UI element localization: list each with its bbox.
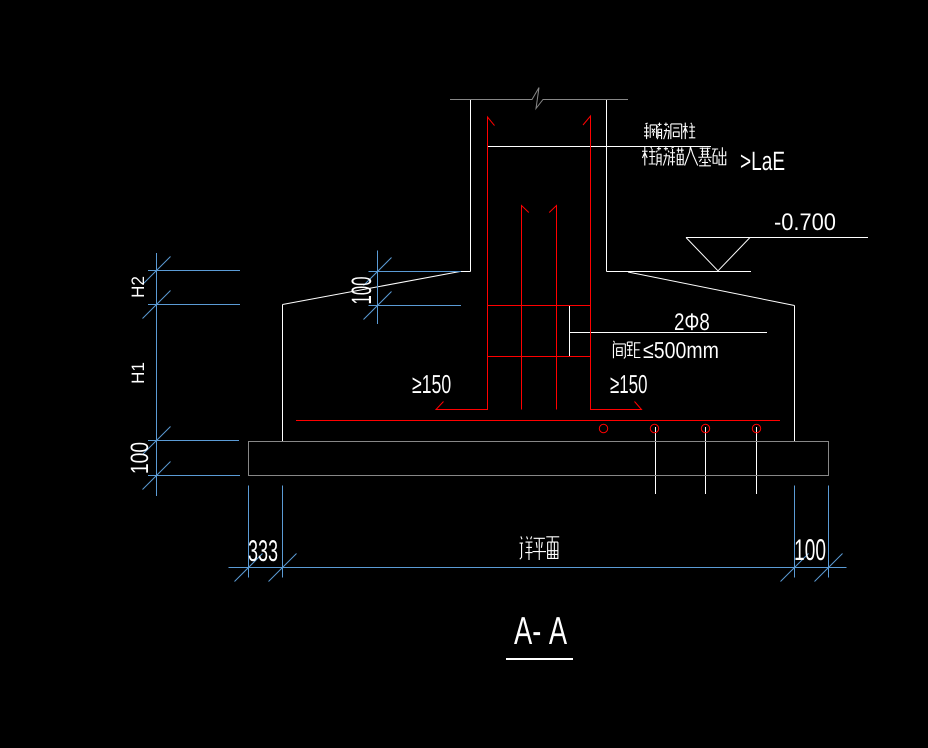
extension line top of footing — [148, 270, 240, 272]
extension line pad bottom — [148, 475, 240, 477]
text H1 rotated — [132, 363, 144, 383]
tick — [235, 554, 263, 582]
label jianju<=500mm — [613, 341, 640, 359]
distribution bar 1 — [488, 305, 591, 307]
tick — [143, 427, 171, 455]
extension line — [369, 305, 462, 307]
label xiang ping mian — [520, 536, 560, 560]
extension line slope base — [148, 304, 240, 306]
footing top-right / level datum line — [607, 271, 752, 273]
circle leader 1 — [655, 427, 657, 494]
column left edge — [470, 100, 472, 272]
text >LaE — [741, 152, 784, 170]
text >=150 right — [611, 375, 647, 393]
extension line footing bottom — [148, 440, 239, 442]
tick — [781, 554, 809, 582]
text >=150 left — [413, 375, 451, 393]
circle leader 2 — [705, 427, 707, 494]
text 333 — [249, 540, 278, 561]
text 100 slope rotated — [351, 277, 371, 303]
footing left slope — [283, 272, 461, 305]
footing right edge — [794, 306, 796, 442]
text 2phi8 — [675, 313, 709, 330]
level symbol triangle — [686, 238, 750, 271]
bedding pad (gray rectangle) — [249, 442, 829, 476]
footing left edge — [282, 305, 284, 442]
bar section circle 4 — [752, 424, 760, 432]
extension line pad right — [828, 486, 830, 578]
rebar inner right — [549, 206, 556, 410]
text -0.700 — [775, 213, 835, 230]
text H2 rotated — [131, 277, 144, 297]
2phi8 leader horizontal — [570, 332, 768, 334]
extension line footing right — [794, 486, 796, 578]
leader line to rebar note — [487, 146, 711, 148]
title A-A — [514, 617, 567, 644]
extension line pad left — [248, 486, 250, 578]
bottom dimension line — [229, 567, 847, 569]
tick — [143, 462, 171, 490]
circle leader 3 — [756, 427, 758, 494]
slope 100 dim line — [377, 251, 379, 325]
extension line footing left — [282, 486, 284, 578]
2phi8 leader vertical — [569, 306, 571, 357]
distribution bar 2 — [488, 356, 591, 358]
bar section circle 2 — [650, 424, 658, 432]
footing right slope — [628, 272, 795, 306]
note line1: gang jin tong zhu — [644, 123, 695, 140]
text 100 left rotated — [131, 443, 149, 473]
level symbol line — [686, 237, 868, 239]
title underline — [506, 658, 573, 660]
tick — [364, 258, 392, 286]
tick — [143, 257, 171, 285]
rebar outer right — [583, 116, 642, 410]
tick — [269, 554, 297, 582]
bottom mat bar — [296, 420, 780, 422]
rebar outer left — [436, 117, 495, 410]
rebar inner left — [522, 206, 529, 410]
extension line — [369, 271, 462, 273]
break line (gray) at top of column — [450, 88, 628, 109]
tick — [815, 554, 843, 582]
tick — [143, 291, 171, 319]
column right edge — [606, 100, 608, 272]
bar section circle 1 — [599, 424, 607, 432]
note line2: zhu jin mao ru ji chu — [642, 147, 726, 166]
text 100 bottom — [795, 539, 825, 560]
left dimension line — [156, 253, 158, 496]
bar section circle 3 — [701, 424, 709, 432]
footing top-left horizontal — [460, 271, 471, 273]
tick — [364, 292, 392, 320]
